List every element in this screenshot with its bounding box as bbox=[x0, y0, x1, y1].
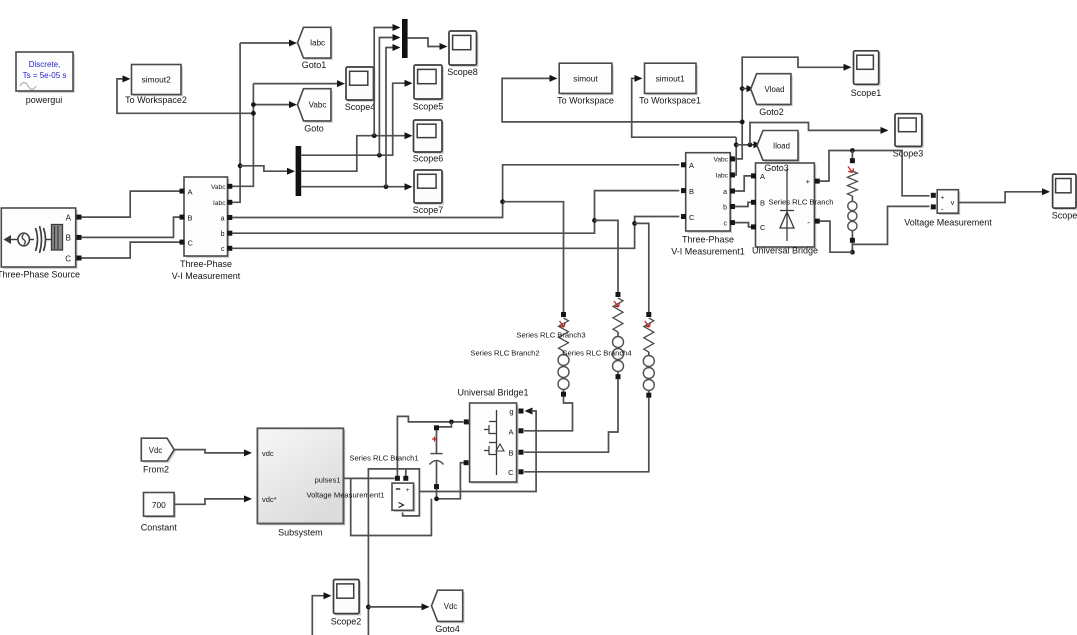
wire to Goto2 bbox=[742, 85, 754, 92]
Scope block bbox=[1052, 174, 1077, 220]
wire Vabc to Goto bbox=[253, 101, 297, 108]
wire Vabc to Scope4 bbox=[253, 80, 345, 87]
junction phase a tap bbox=[500, 199, 505, 204]
svg-text:Series RLC Branch2: Series RLC Branch2 bbox=[470, 349, 539, 358]
svg-text:simout: simout bbox=[573, 74, 598, 84]
svg-text:To Workspace1: To Workspace1 bbox=[639, 96, 701, 106]
wire phase c drop to Branch4 bbox=[635, 223, 649, 312]
svg-text:c: c bbox=[724, 220, 728, 227]
svg-text:Universal Bridge1: Universal Bridge1 bbox=[457, 388, 528, 398]
wire VM output to Scope bbox=[959, 188, 1050, 202]
svg-text:B: B bbox=[760, 199, 765, 208]
Vabc riser wire bbox=[232, 84, 253, 187]
Series RLC Branch (load R-L) bbox=[769, 158, 858, 243]
Universal Bridge1 block bbox=[457, 388, 528, 484]
junction Vload-Goto2 bbox=[740, 86, 745, 91]
svg-text:B: B bbox=[508, 449, 513, 458]
svg-text:Iabc: Iabc bbox=[213, 200, 226, 207]
svg-text:a: a bbox=[723, 189, 727, 196]
junction Iload tap bbox=[734, 142, 739, 147]
svg-text:Iabc: Iabc bbox=[716, 173, 729, 180]
svg-text:simout2: simout2 bbox=[142, 75, 171, 85]
label Series RLC Branch4 bbox=[562, 349, 631, 358]
wire Mux to Scope8 bbox=[408, 38, 448, 50]
svg-text:From2: From2 bbox=[143, 465, 169, 475]
svg-text:Series RLC Branch1: Series RLC Branch1 bbox=[349, 454, 418, 463]
Three-Phase V-I Measurement block bbox=[172, 177, 241, 281]
Scope2 block bbox=[331, 580, 362, 627]
svg-text:+: + bbox=[806, 177, 811, 186]
wire gate feed to Bridge1 g bbox=[420, 408, 536, 492]
wire VM1 output loop to Goto4 bbox=[368, 469, 419, 635]
svg-text:Constant: Constant bbox=[141, 523, 178, 533]
junction Goto4 tap bbox=[366, 605, 371, 610]
junction out3-mux bbox=[384, 184, 389, 189]
To Workspace1 block (simout1) bbox=[639, 63, 701, 105]
svg-text:Scope7: Scope7 bbox=[413, 205, 444, 215]
To Workspace2 block (simout2) bbox=[125, 65, 187, 106]
svg-text:simout1: simout1 bbox=[656, 74, 685, 84]
svg-text:a: a bbox=[221, 215, 225, 222]
junction capacitor bottom bbox=[434, 496, 439, 501]
svg-text:A: A bbox=[508, 428, 513, 437]
junction Vabc-ToWorkspace2 bbox=[251, 111, 256, 116]
wire From2 to Subsystem vdc bbox=[174, 449, 252, 456]
svg-text:Vdc: Vdc bbox=[444, 602, 458, 611]
svg-text:Scope6: Scope6 bbox=[413, 154, 444, 164]
wire capacitor top tap bbox=[439, 422, 452, 427]
Universal Bridge block bbox=[751, 163, 820, 256]
Scope6 block bbox=[413, 120, 444, 164]
Constant block (700) bbox=[141, 493, 178, 533]
svg-text:Voltage Measurement: Voltage Measurement bbox=[904, 218, 992, 228]
wire phase b drop to Branch3 bbox=[595, 220, 619, 292]
svg-text:B: B bbox=[188, 213, 193, 222]
svg-text:B: B bbox=[66, 234, 71, 243]
svg-text:Universal Bridge: Universal Bridge bbox=[752, 246, 818, 256]
svg-text:Goto4: Goto4 bbox=[435, 624, 460, 634]
svg-text:To Workspace: To Workspace bbox=[557, 96, 614, 106]
wire to Goto3 bbox=[736, 141, 761, 148]
junction load bottom bbox=[850, 250, 855, 255]
wire source A to measurement A bbox=[81, 191, 179, 217]
wire load branch bottom to VM minus bbox=[852, 206, 929, 252]
Series RLC Branch1 (capacitor C) bbox=[349, 425, 443, 489]
Demux out1 wire to Scope5 bbox=[301, 80, 412, 156]
svg-text:b: b bbox=[221, 231, 225, 238]
wire Branch2 to Bridge1 A bbox=[524, 396, 573, 430]
label Series RLC Branch3 bbox=[516, 331, 585, 340]
svg-text:C: C bbox=[65, 255, 71, 264]
Goto tag (Vabc) bbox=[298, 89, 333, 134]
svg-text:V-I Measurement: V-I Measurement bbox=[172, 271, 241, 281]
Demux out3 wire to Scope7 bbox=[301, 183, 412, 190]
Goto4 tag (Vdc) bbox=[432, 590, 465, 634]
svg-text:A: A bbox=[760, 172, 765, 181]
svg-text:-: - bbox=[807, 217, 810, 227]
wire phase a to measurement1 A bbox=[232, 165, 679, 218]
svg-text:Scope5: Scope5 bbox=[413, 102, 444, 112]
Scope1 block bbox=[851, 51, 882, 98]
wire capacitor bottom to Bridge1 minus bbox=[437, 463, 464, 499]
label Series RLC Branch2 bbox=[470, 349, 539, 358]
wire Constant to Subsystem vdc* bbox=[174, 495, 252, 504]
wire into To Workspace2 bbox=[117, 75, 253, 113]
svg-text:c: c bbox=[221, 246, 225, 253]
svg-text:C: C bbox=[188, 238, 194, 247]
Goto2 tag (Vload) bbox=[751, 74, 793, 117]
svg-text:Subsystem: Subsystem bbox=[278, 528, 323, 538]
svg-text:powergui: powergui bbox=[26, 95, 63, 105]
svg-text:Scope1: Scope1 bbox=[851, 88, 882, 98]
svg-text:b: b bbox=[723, 204, 727, 211]
Demux out2 wire to Scope6 bbox=[301, 132, 412, 171]
wire loop below Subsystem bbox=[351, 479, 432, 536]
wire Vabc1 riser bbox=[735, 57, 852, 159]
Three-Phase V-I Measurement1 block bbox=[671, 153, 745, 257]
svg-text:Vabc: Vabc bbox=[211, 184, 226, 191]
svg-text:vdc: vdc bbox=[262, 449, 274, 458]
junction Vload-ToWorkspace bbox=[740, 120, 745, 125]
junction capacitor top bbox=[449, 420, 454, 425]
label Goto3 bbox=[764, 163, 789, 173]
wire phase b to measurement1 B bbox=[232, 191, 679, 234]
To Workspace block (simout) bbox=[557, 63, 614, 105]
svg-text:Three-Phase: Three-Phase bbox=[180, 259, 232, 269]
svg-text:Series RLC Branch: Series RLC Branch bbox=[769, 198, 834, 207]
svg-text:C: C bbox=[508, 468, 514, 477]
junction VM1 loop to gate line bbox=[0, 0, 1, 1]
svg-text:+: + bbox=[941, 194, 945, 201]
svg-text:Ts = 5e-05 s: Ts = 5e-05 s bbox=[23, 71, 67, 80]
svg-text:V-I Measurement1: V-I Measurement1 bbox=[671, 247, 745, 257]
Iabc riser wire bbox=[232, 43, 240, 202]
svg-text:Scope8: Scope8 bbox=[447, 67, 478, 77]
Scope5 block bbox=[413, 65, 444, 112]
svg-text:Goto2: Goto2 bbox=[759, 107, 784, 117]
junction phase b tap bbox=[592, 218, 597, 223]
Goto1 tag (Iabc) bbox=[298, 27, 333, 70]
Voltage Measurement1 block bbox=[306, 476, 415, 512]
svg-text:A: A bbox=[689, 161, 694, 170]
From2 tag (Vdc) bbox=[141, 438, 176, 474]
Scope7 block bbox=[413, 170, 444, 215]
wire phase c to measurement1 C bbox=[232, 217, 679, 249]
wire VM1 plus to Bridge1 plus bbox=[397, 416, 463, 476]
mux input wire 2 bbox=[379, 34, 400, 155]
wire source B to measurement B bbox=[81, 217, 179, 237]
junction Scope3 tap bbox=[748, 142, 753, 147]
svg-text:C: C bbox=[689, 213, 695, 222]
wire Iabc1 riser bbox=[735, 137, 737, 175]
svg-text:Scope2: Scope2 bbox=[331, 617, 362, 627]
svg-text:vdc*: vdc* bbox=[262, 495, 277, 504]
Scope8 block bbox=[447, 31, 478, 77]
svg-text:Voltage Measurement1: Voltage Measurement1 bbox=[306, 491, 384, 500]
junction Vabc-Goto bbox=[251, 102, 256, 107]
svg-text:Three-Phase: Three-Phase bbox=[682, 235, 734, 245]
junction out1-mux bbox=[377, 153, 382, 158]
powergui block bbox=[16, 52, 75, 105]
junction load branch top bbox=[850, 148, 855, 153]
svg-text:B: B bbox=[689, 187, 694, 196]
Series RLC Branch2 (R-L) bbox=[558, 312, 569, 397]
junction phase c tap bbox=[632, 221, 637, 226]
Scope3 block bbox=[893, 114, 924, 159]
mux input wire 3 bbox=[386, 44, 401, 187]
wire pulses1 to Voltage Measurement1 bbox=[344, 477, 395, 479]
wire Bridge plus to Voltage Measurement plus bbox=[820, 151, 930, 196]
svg-text:700: 700 bbox=[152, 500, 166, 510]
svg-text:pulses1: pulses1 bbox=[315, 476, 341, 485]
load branch top stub bbox=[851, 151, 853, 159]
svg-text:Series RLC Branch4: Series RLC Branch4 bbox=[562, 349, 631, 358]
Scope4 block bbox=[345, 67, 376, 112]
wire Iabc to Goto1 bbox=[240, 40, 297, 47]
wire c1 to Bridge C bbox=[735, 223, 752, 227]
svg-text:Goto3: Goto3 bbox=[764, 163, 789, 173]
svg-text:g: g bbox=[509, 407, 513, 416]
wire Vload net to To Workspace bbox=[502, 75, 742, 122]
mux input wire 1 bbox=[374, 24, 400, 136]
Mux block bbox=[402, 19, 408, 58]
svg-text:Discrete,: Discrete, bbox=[29, 60, 61, 69]
wire into Scope2 bbox=[312, 592, 331, 635]
svg-text:C: C bbox=[760, 223, 766, 232]
svg-text:Series RLC Branch3: Series RLC Branch3 bbox=[516, 331, 585, 340]
svg-text:Iload: Iload bbox=[773, 142, 790, 151]
junction Iabc-Demux bbox=[238, 163, 243, 168]
wire source C to measurement C bbox=[81, 242, 179, 258]
svg-text:v: v bbox=[951, 200, 955, 207]
svg-text:Vdc: Vdc bbox=[149, 446, 163, 455]
svg-text:Three-Phase Source: Three-Phase Source bbox=[0, 270, 80, 280]
Voltage Measurement block bbox=[904, 190, 992, 228]
Subsystem block bbox=[257, 428, 345, 537]
svg-text:Vload: Vload bbox=[765, 85, 785, 94]
Three-Phase Source block bbox=[0, 208, 82, 280]
svg-text:A: A bbox=[66, 214, 72, 223]
wire Branch4 to Bridge1 C bbox=[524, 397, 649, 471]
svg-text:Scope: Scope bbox=[1052, 211, 1077, 221]
Goto3 tag (Iload) bbox=[757, 131, 800, 163]
svg-text:Goto1: Goto1 bbox=[302, 60, 327, 70]
wire Branch3 to Bridge1 B bbox=[524, 379, 618, 452]
svg-text:Scope4: Scope4 bbox=[345, 102, 376, 112]
svg-text:To Workspace2: To Workspace2 bbox=[125, 95, 187, 105]
Series RLC Branch3 (R-L) bbox=[613, 292, 624, 379]
Series RLC Branch4 (R-L) bbox=[643, 312, 654, 398]
svg-text:+: + bbox=[406, 487, 410, 494]
wire Iabc to Demux bbox=[240, 166, 295, 175]
svg-text:Goto: Goto bbox=[304, 124, 324, 134]
Demux block bbox=[296, 146, 302, 196]
junction out2-mux bbox=[372, 133, 377, 138]
wire Iabc net to To Workspace1 bbox=[632, 75, 737, 137]
svg-text:Vabc: Vabc bbox=[713, 157, 728, 164]
svg-text:Iabc: Iabc bbox=[310, 39, 325, 48]
svg-text:Vabc: Vabc bbox=[309, 101, 327, 110]
wire a1 to Bridge A bbox=[735, 176, 752, 191]
wire b1 to Bridge B bbox=[735, 202, 752, 206]
wire to Scope3 bbox=[750, 123, 889, 145]
wire VM1 minus stub bbox=[405, 469, 407, 476]
wire phase a drop to Branch2 bbox=[503, 202, 564, 313]
wire to Goto4 bbox=[368, 603, 429, 610]
wire Bridge minus loop bbox=[820, 221, 853, 252]
svg-text:A: A bbox=[188, 187, 193, 196]
